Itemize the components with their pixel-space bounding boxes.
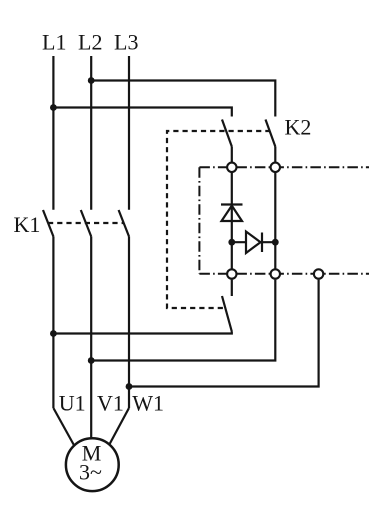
terminal circle bottom middle [271,269,280,278]
wire right branch vertical [274,167,276,274]
wire L1 branch to K2 pole 1 [53,108,231,117]
wire L3 vertical upper [128,56,130,210]
node junction D2 left [228,239,235,246]
diode D1 triangle [222,206,243,221]
wire left branch vertical [231,167,233,274]
K1 mechanical linkage dashed [48,222,124,224]
wire L2 vertical lower [90,237,92,439]
enclosure boundary dash-dot top [199,166,369,168]
contactor K2 pole 2 blade [266,120,276,147]
node junction L3 lower [126,383,133,390]
wire K2 pole 1 lower lead [231,147,233,163]
contactor K1 pole 2 blade [81,210,91,237]
motor M circle [66,438,119,491]
contactor K2 pole 1 blade [222,120,232,147]
wire L2 branch to K2 pole 2 [91,81,275,117]
wire middle return to L2 [91,280,275,361]
wire L2 vertical upper [90,56,92,210]
wire W1 lead to motor [108,408,129,447]
svg-text:U1: U1 [59,391,86,416]
svg-text:W1: W1 [132,391,164,416]
wire L3 vertical lower [128,237,130,409]
contactor K1 pole 1 blade [43,210,53,237]
terminal circle top right [271,163,280,172]
diode D2 cathode bar [261,233,263,253]
wire K2 pole 2 lower lead [274,147,276,163]
wire L1 vertical lower [52,237,54,409]
K2 mechanical linkage dashed L-shape [167,131,271,308]
enclosure boundary dash-dot left [198,167,200,274]
svg-text:L1: L1 [42,30,66,55]
diode D2 triangle [246,232,261,254]
wire diode D2 link [232,241,275,243]
auxiliary contact upper lead [231,280,233,296]
svg-text:K2: K2 [285,115,312,140]
svg-text:L3: L3 [114,30,138,55]
svg-text:K1: K1 [14,212,41,237]
wire right return to L3 [129,280,319,387]
node junction D2 right [272,239,279,246]
contactor K1 pole 3 blade [119,210,129,237]
svg-text:V1: V1 [97,391,124,416]
auxiliary contact blade [222,296,232,332]
node junction L2 branch [88,77,95,84]
terminal circle bottom left [227,269,236,278]
diode D1 cathode bar [221,203,243,205]
svg-text:3~: 3~ [79,460,102,485]
terminal circle bottom right [314,269,323,278]
node junction L1 lower [50,330,57,337]
enclosure boundary dash-dot bottom [199,273,369,275]
node junction L2 lower [88,357,95,364]
terminal circle top left [227,163,236,172]
wire U1 lead to motor [53,408,75,447]
wire L1 vertical upper [52,56,54,210]
wire aux contact to L1 [53,332,231,334]
node junction L1 branch [50,104,57,111]
svg-text:L2: L2 [78,30,102,55]
